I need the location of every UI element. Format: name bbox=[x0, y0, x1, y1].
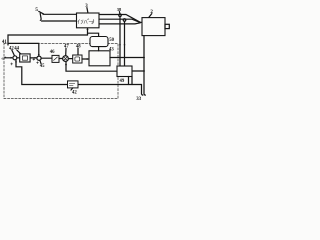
inverter output line V bbox=[99, 19, 140, 22]
svg-text:46: 46 bbox=[50, 50, 55, 55]
B1 inner box bbox=[23, 56, 28, 60]
leader 47 bbox=[65, 48, 67, 55]
multiplier M (47) bbox=[63, 56, 69, 62]
label 45 bbox=[40, 64, 45, 69]
CT 38 loop on line U bbox=[119, 14, 122, 17]
arrowheads on sense wires bbox=[119, 45, 126, 47]
motor box 2 bbox=[142, 18, 165, 36]
input label bbox=[2, 55, 7, 60]
inverter output line W bbox=[99, 23, 140, 24]
svg-text:42: 42 bbox=[72, 91, 77, 96]
function block B3 (48) bbox=[73, 55, 82, 63]
label 38 bbox=[117, 7, 122, 12]
wire 43 output right bbox=[110, 57, 144, 59]
wire motor drop bbox=[144, 36, 145, 96]
svg-text:43: 43 bbox=[109, 48, 114, 53]
B2 inner mark bbox=[54, 57, 58, 60]
inverter output line U bbox=[99, 15, 142, 23]
feedback converter box bbox=[68, 81, 79, 88]
leader 42 bbox=[12, 50, 15, 55]
wire stubs under box 49 bbox=[129, 77, 133, 85]
wire into inverter bottom with up arrow bbox=[87, 29, 89, 35]
leader 38 bbox=[118, 12, 121, 14]
label 42b bbox=[72, 91, 77, 96]
label 5 bbox=[35, 7, 38, 13]
wire 49 output to multiplier bbox=[66, 62, 117, 71]
wire into S2 top bbox=[8, 43, 39, 55]
label 47 bbox=[64, 45, 69, 50]
label 42 bbox=[9, 46, 14, 51]
wire CT V sense down bbox=[124, 21, 126, 66]
wire S2 to B2 bbox=[41, 57, 52, 59]
wire B2 to M bbox=[59, 58, 63, 60]
wire S1 to B1 bbox=[17, 57, 20, 59]
motor shaft stub bbox=[165, 24, 169, 28]
leader 44 bbox=[17, 50, 21, 54]
wire B3 to PWM 43 bbox=[82, 58, 88, 60]
wire CT U sense down bbox=[119, 16, 121, 66]
B3 inner mark bbox=[75, 57, 80, 61]
summing node S1 (42) bbox=[13, 56, 17, 60]
label 41 bbox=[2, 40, 7, 45]
svg-text:47: 47 bbox=[64, 45, 69, 50]
plus mark S2 bbox=[33, 58, 39, 63]
wire speed feedback right segment bbox=[78, 84, 142, 86]
wire AC supply line 2 bbox=[42, 20, 77, 22]
wire AC supply line 1 bbox=[44, 13, 77, 15]
wire 50-43 bbox=[98, 47, 100, 51]
wire feedback to S1 bbox=[16, 60, 68, 84]
leader 3 bbox=[87, 8, 88, 13]
label 48 bbox=[76, 45, 81, 50]
wire 33 drop bbox=[142, 85, 143, 96]
speed controller B1 (44) bbox=[20, 54, 30, 62]
svg-text:33: 33 bbox=[136, 97, 141, 102]
dashed controller box 41 bbox=[4, 43, 118, 98]
wire B1 to S2 bbox=[30, 57, 36, 59]
leader 48 bbox=[77, 48, 79, 55]
drive box 50 bbox=[90, 37, 108, 47]
function block B2 (46) bbox=[52, 55, 59, 62]
leader 45 bbox=[40, 61, 41, 64]
label 33 bbox=[136, 97, 141, 102]
label 43 bbox=[109, 48, 114, 53]
wire M to B3 bbox=[68, 58, 72, 60]
plus mark S1 bbox=[11, 63, 13, 65]
wire from box 50 to inverter path bbox=[88, 33, 99, 36]
svg-text:50: 50 bbox=[109, 38, 114, 43]
svg-text:41: 41 bbox=[2, 40, 7, 45]
current detector box 49 bbox=[117, 66, 132, 77]
wire input arrow bbox=[5, 57, 12, 59]
junction bbox=[143, 57, 145, 59]
CT loop on line V bbox=[123, 19, 126, 22]
label 2 bbox=[150, 10, 153, 15]
leader from 5 to supply lines bbox=[39, 11, 44, 19]
leader 2 bbox=[149, 14, 152, 18]
inverter katakana text bbox=[78, 19, 94, 24]
wire frequency feedback top bbox=[8, 35, 88, 45]
wire 49 to junction on motor drop bbox=[132, 70, 144, 72]
leader 42b bbox=[71, 88, 73, 90]
box inner marks bbox=[69, 83, 75, 85]
svg-text:5: 5 bbox=[35, 7, 38, 13]
svg-text:45: 45 bbox=[40, 64, 45, 69]
svg-text:49: 49 bbox=[120, 79, 125, 84]
PWM box 43 bbox=[89, 51, 110, 66]
summing node S2 (45) bbox=[37, 56, 41, 60]
label 44 bbox=[14, 46, 19, 51]
label 50 bbox=[109, 38, 114, 43]
inverter box 3 bbox=[77, 13, 100, 28]
label 46 bbox=[50, 50, 55, 55]
label 3 bbox=[85, 4, 88, 9]
label 49 bbox=[120, 79, 125, 84]
